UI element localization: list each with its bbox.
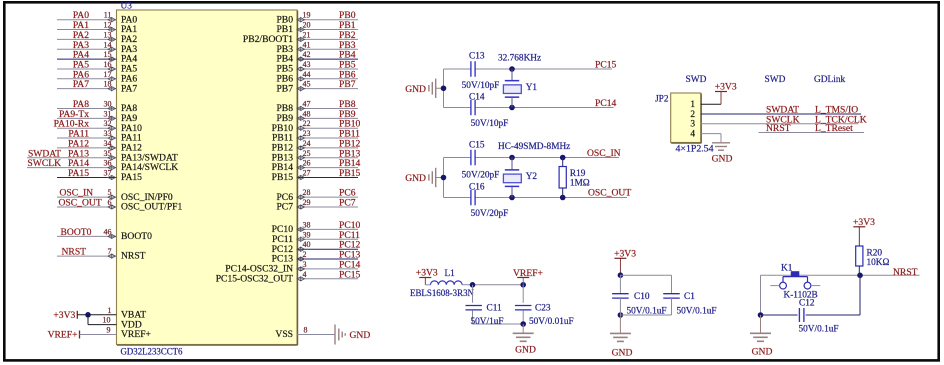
svg-text:45: 45 [303, 80, 311, 89]
svg-text:VREF+: VREF+ [513, 268, 543, 279]
svg-text:PA15: PA15 [68, 168, 89, 179]
svg-text:HC-49SMD-8MHz: HC-49SMD-8MHz [498, 142, 570, 152]
svg-text:1: 1 [690, 100, 695, 110]
svg-text:32: 32 [104, 119, 112, 128]
svg-text:23: 23 [303, 129, 311, 138]
svg-text:3: 3 [303, 260, 307, 269]
svg-text:50V/10pF: 50V/10pF [471, 119, 509, 129]
svg-text:14: 14 [104, 40, 112, 49]
svg-text:10: 10 [103, 316, 111, 325]
svg-text:2: 2 [303, 250, 307, 259]
svg-text:BOOT0: BOOT0 [121, 231, 152, 242]
svg-text:34: 34 [104, 139, 112, 148]
svg-text:10KΩ: 10KΩ [867, 258, 890, 268]
svg-text:47: 47 [303, 100, 311, 109]
svg-text:24: 24 [303, 139, 311, 148]
svg-text:15: 15 [104, 50, 112, 59]
svg-text:BOOT0: BOOT0 [61, 227, 92, 238]
svg-text:18: 18 [104, 80, 112, 89]
svg-text:PA7: PA7 [73, 79, 89, 90]
svg-text:C16: C16 [469, 183, 485, 193]
svg-text:21: 21 [303, 30, 311, 39]
svg-text:13: 13 [104, 30, 112, 39]
svg-text:PB7: PB7 [339, 79, 356, 90]
svg-text:+3V3: +3V3 [53, 310, 75, 321]
svg-text:NRST: NRST [62, 247, 87, 258]
svg-text:48: 48 [303, 109, 311, 118]
svg-text:46: 46 [104, 227, 112, 236]
svg-text:OSC_OUT/PF1: OSC_OUT/PF1 [121, 202, 183, 213]
svg-text:11: 11 [104, 11, 112, 20]
svg-text:50V/20pF: 50V/20pF [462, 171, 500, 181]
svg-text:C23: C23 [535, 304, 551, 314]
svg-text:R20: R20 [867, 249, 883, 259]
svg-text:PC15-OSC32_OUT: PC15-OSC32_OUT [216, 273, 293, 284]
svg-text:4: 4 [690, 130, 695, 140]
svg-text:27: 27 [303, 168, 311, 177]
svg-text:50V/10pF: 50V/10pF [462, 81, 500, 91]
svg-text:C10: C10 [634, 292, 650, 302]
svg-text:25: 25 [303, 149, 311, 158]
svg-text:44: 44 [303, 70, 311, 79]
svg-text:50V/0.1uF: 50V/0.1uF [677, 307, 717, 317]
svg-text:9: 9 [107, 326, 111, 335]
svg-text:SWD: SWD [686, 75, 707, 85]
svg-text:EBLS1608-3R3N: EBLS1608-3R3N [410, 289, 474, 299]
svg-text:36: 36 [104, 159, 112, 168]
svg-text:PB15: PB15 [339, 168, 361, 179]
svg-text:+3V3: +3V3 [614, 248, 636, 259]
svg-text:NRST: NRST [893, 267, 918, 278]
svg-text:L_TReset: L_TReset [815, 123, 853, 134]
svg-text:PC14: PC14 [595, 98, 617, 109]
svg-text:PA7: PA7 [121, 83, 137, 94]
svg-text:C15: C15 [469, 141, 485, 151]
svg-text:C13: C13 [469, 52, 485, 62]
svg-text:26: 26 [303, 159, 311, 168]
svg-text:OSC_IN: OSC_IN [587, 148, 621, 159]
svg-text:1MΩ: 1MΩ [570, 179, 590, 189]
svg-text:28: 28 [303, 188, 311, 197]
svg-text:43: 43 [303, 60, 311, 69]
svg-text:GND: GND [515, 345, 536, 356]
svg-text:NRST: NRST [121, 251, 146, 262]
svg-text:16: 16 [104, 60, 112, 69]
svg-text:PB15: PB15 [272, 172, 294, 183]
svg-text:+3V3: +3V3 [416, 268, 438, 279]
svg-text:31: 31 [104, 109, 112, 118]
svg-text:K1: K1 [781, 263, 793, 273]
svg-text:37: 37 [104, 168, 112, 177]
svg-text:39: 39 [303, 230, 311, 239]
svg-text:50V/0.01uF: 50V/0.01uF [529, 317, 574, 327]
svg-text:U3: U3 [121, 2, 133, 12]
svg-text:32.768KHz: 32.768KHz [498, 53, 541, 63]
svg-text:29: 29 [303, 198, 311, 207]
svg-text:PC15: PC15 [595, 60, 617, 71]
svg-text:JP2: JP2 [655, 95, 669, 105]
svg-text:19: 19 [303, 11, 311, 20]
svg-text:PC7: PC7 [339, 198, 356, 209]
svg-text:PA15: PA15 [121, 172, 142, 183]
svg-text:17: 17 [104, 70, 112, 79]
svg-text:C12: C12 [799, 299, 815, 309]
svg-text:1: 1 [108, 306, 112, 315]
svg-text:C14: C14 [469, 93, 485, 103]
svg-text:4×1P2.54: 4×1P2.54 [676, 145, 714, 155]
svg-text:50V/20pF: 50V/20pF [471, 209, 509, 219]
svg-text:PC7: PC7 [276, 202, 293, 213]
svg-text:5: 5 [108, 188, 112, 197]
svg-text:GDLink: GDLink [814, 75, 846, 85]
svg-text:L1: L1 [445, 269, 456, 279]
svg-text:GD32L233CCT6: GD32L233CCT6 [121, 347, 183, 357]
svg-text:2: 2 [690, 110, 695, 120]
svg-text:OSC_OUT: OSC_OUT [59, 198, 102, 209]
svg-text:50V/0.1uF: 50V/0.1uF [627, 307, 667, 317]
svg-text:+3V3: +3V3 [715, 82, 737, 93]
svg-text:SWCLK: SWCLK [27, 158, 61, 169]
svg-text:35: 35 [104, 149, 112, 158]
svg-text:38: 38 [303, 220, 311, 229]
svg-text:7: 7 [108, 247, 112, 256]
svg-text:GND: GND [405, 173, 426, 184]
svg-text:GND: GND [612, 347, 633, 358]
svg-text:GND: GND [752, 347, 773, 358]
svg-text:8: 8 [304, 326, 308, 335]
svg-text:PC15: PC15 [339, 269, 361, 280]
svg-text:GND: GND [712, 154, 733, 165]
svg-text:GND: GND [350, 330, 371, 341]
svg-text:C11: C11 [487, 304, 503, 314]
svg-text:Y2: Y2 [526, 172, 538, 182]
svg-text:3: 3 [690, 120, 695, 130]
svg-text:4: 4 [303, 270, 307, 279]
svg-text:6: 6 [108, 198, 112, 207]
svg-text:12: 12 [104, 21, 112, 30]
svg-text:42: 42 [303, 50, 311, 59]
svg-text:+3V3: +3V3 [853, 217, 875, 228]
svg-text:R19: R19 [570, 169, 586, 179]
svg-text:40: 40 [303, 240, 311, 249]
svg-text:33: 33 [104, 129, 112, 138]
svg-text:22: 22 [303, 119, 311, 128]
svg-text:PB7: PB7 [276, 83, 293, 94]
svg-text:OSC_OUT: OSC_OUT [588, 188, 631, 199]
svg-text:GND: GND [405, 84, 426, 95]
svg-text:50V/1uF: 50V/1uF [471, 317, 504, 327]
svg-text:VREF+: VREF+ [121, 329, 151, 340]
svg-text:50V/0.1uF: 50V/0.1uF [799, 325, 839, 335]
svg-text:20: 20 [303, 21, 311, 30]
svg-text:SWD: SWD [765, 75, 786, 85]
svg-text:VREF+: VREF+ [48, 330, 78, 341]
svg-text:VSS: VSS [275, 329, 293, 340]
svg-text:C1: C1 [684, 292, 695, 302]
svg-text:41: 41 [303, 40, 311, 49]
svg-text:Y1: Y1 [526, 83, 538, 93]
svg-text:NRST: NRST [766, 123, 791, 134]
svg-text:30: 30 [104, 100, 112, 109]
